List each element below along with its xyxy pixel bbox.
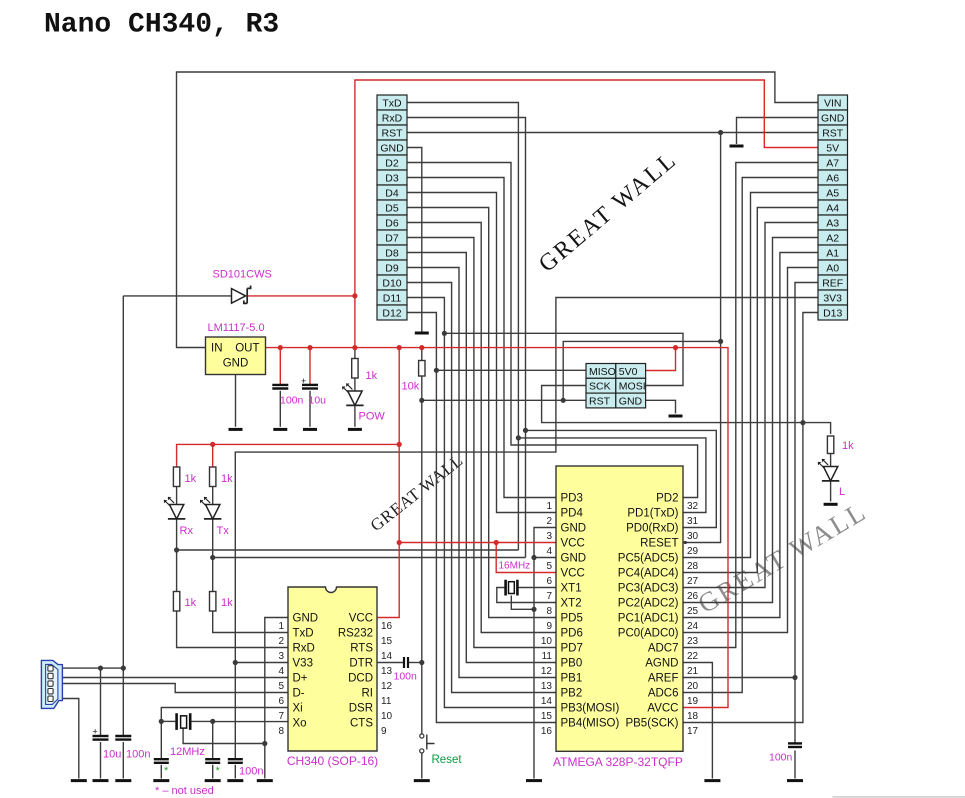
wire CH340 GND pin1 to ground (265, 618, 288, 779)
ground 10u GND (303, 428, 317, 431)
node Tx junction (210, 555, 215, 560)
svg-text:PC1(ADC1): PC1(ADC1) (618, 613, 679, 625)
svg-text:D+: D+ (293, 673, 308, 685)
svg-text:ADC7: ADC7 (648, 643, 679, 655)
svg-text:A1: A1 (826, 247, 839, 259)
wire A1 to ATMEGA PC1 (683, 253, 818, 618)
node DTR cap junction (419, 660, 424, 665)
wire D4 header to ATMEGA PD4 (407, 193, 556, 513)
node RxD branch junction (523, 428, 528, 433)
svg-text:A4: A4 (826, 202, 839, 214)
svg-text:7: 7 (546, 591, 552, 602)
node OUT POW junction (352, 345, 357, 350)
svg-text:AREF: AREF (648, 673, 679, 685)
svg-text:D7: D7 (385, 232, 399, 244)
svg-text:Nano CH340, R3: Nano CH340, R3 (44, 10, 279, 41)
wire A5 to ATMEGA PC5 (683, 193, 818, 558)
svg-text:1k: 1k (185, 597, 197, 609)
svg-text:100n: 100n (126, 749, 150, 761)
resistor R 1k POW (352, 359, 358, 379)
node OUT 100n junction (278, 345, 283, 350)
svg-text:Xi: Xi (293, 703, 303, 715)
svg-text:PB0: PB0 (561, 658, 583, 670)
svg-text:PD7: PD7 (561, 643, 583, 655)
pin 4 of USB (48, 689, 53, 694)
LED L (818, 459, 839, 481)
resistor R 1k L (827, 436, 833, 454)
ground 100n bottom GND (115, 779, 131, 782)
svg-text:15: 15 (541, 711, 553, 722)
wire POW resistor to LED (354, 378, 356, 391)
wire ISP GND to ground (646, 400, 676, 413)
svg-text:GND: GND (561, 553, 587, 565)
header pin A7 right (818, 155, 848, 170)
svg-text:100n: 100n (239, 766, 263, 778)
header pin D11 (377, 290, 407, 305)
capacitor 100n DTR (404, 657, 408, 668)
svg-text:IN: IN (211, 343, 223, 355)
node Rx junction (174, 547, 179, 552)
wire DTR cap to reset line (409, 662, 422, 664)
svg-text:23: 23 (687, 636, 699, 647)
wire A2 to ATMEGA PC2 (683, 238, 818, 603)
svg-text:18: 18 (687, 711, 699, 722)
svg-text:1: 1 (278, 621, 284, 632)
wire ISP MOSI route (444, 333, 683, 385)
pin 2 of USB (48, 673, 53, 678)
header pin A1 right (818, 245, 848, 260)
svg-text:PD6: PD6 (561, 628, 583, 640)
ground 10u bottom GND (93, 779, 109, 782)
svg-text:*: * (164, 765, 169, 777)
svg-text:10u: 10u (103, 749, 121, 761)
svg-text:+: + (93, 727, 98, 737)
svg-text:V33: V33 (293, 658, 313, 670)
resistor R 1k Tx lower (210, 592, 216, 612)
svg-text:OUT: OUT (235, 343, 259, 355)
crystal X1 12MHz (177, 713, 191, 730)
svg-text:GND: GND (293, 613, 319, 625)
svg-text:DSR: DSR (349, 703, 373, 715)
ISP header cell MOSI (616, 378, 646, 393)
wire POW LED cathode (354, 407, 356, 427)
svg-text:GND: GND (223, 358, 249, 370)
svg-text:PC5(ADC5): PC5(ADC5) (618, 553, 679, 565)
svg-text:10: 10 (541, 636, 553, 647)
wire 12MHz left cap to ground (160, 721, 162, 758)
header pin A6 right (818, 170, 848, 185)
wire 100n cap stem (279, 391, 281, 427)
svg-text:GND: GND (619, 396, 643, 408)
capacitor 100n at LM1117 (272, 385, 288, 389)
wire D10 header to ATMEGA PB2 (407, 283, 556, 693)
svg-text:D13: D13 (823, 307, 842, 319)
pin 1 of USB (48, 666, 53, 671)
svg-text:PD4: PD4 (561, 508, 584, 520)
wire 12MHz left cap stem (160, 765, 162, 779)
svg-text:D2: D2 (385, 157, 399, 169)
svg-text:A7: A7 (826, 157, 839, 169)
svg-text:GND: GND (561, 523, 587, 535)
wire header RST row to right header RST (407, 132, 818, 134)
wire 16MHz crystal case tap (511, 596, 534, 610)
wire Tx lower resistor to CH340 TxD (213, 611, 288, 633)
node OUT VCC-branch junction (397, 345, 402, 350)
wire ATMEGA GND pin5 stub (534, 557, 556, 559)
node MISO junction (434, 368, 439, 373)
svg-text:DTR: DTR (349, 658, 373, 670)
wire USB GND wire (53, 699, 79, 779)
ground 12MHz cap2 GND (205, 779, 221, 782)
svg-text:RTS: RTS (350, 643, 373, 655)
ground reset GND (414, 779, 430, 782)
svg-text:1: 1 (546, 501, 552, 512)
wire Tx LED cathode down (212, 487, 214, 592)
svg-text:13: 13 (381, 666, 393, 677)
ground AGND GND (704, 779, 720, 782)
svg-text:ADC6: ADC6 (648, 688, 679, 700)
node VBUS 10u junction (98, 666, 103, 671)
wire 100n bottom stem (122, 742, 124, 779)
wire V33 100n cap stem (234, 765, 236, 779)
node AREF junction (792, 675, 797, 680)
svg-text:PB4(MISO): PB4(MISO) (561, 718, 620, 730)
header pin RxD (377, 110, 407, 125)
svg-text:RST: RST (589, 396, 611, 408)
svg-text:21: 21 (687, 666, 699, 677)
wire 16MHz crystal XT1 stub (518, 587, 556, 589)
wire CH340 Xi to crystal (161, 708, 288, 722)
svg-text:VCC: VCC (561, 538, 585, 550)
wire TxD branch to ATMEGA PD1 (518, 438, 706, 513)
svg-text:16MHz: 16MHz (499, 561, 531, 572)
wire CH340 V33 row (235, 662, 288, 664)
wire L LED branch (803, 423, 831, 434)
wire reset button to ground (421, 753, 423, 779)
svg-text:9: 9 (381, 726, 387, 737)
LED Tx (200, 497, 221, 519)
node ATMEGA GND5 junction (531, 555, 536, 560)
wire Tx junction to RxD net (213, 557, 526, 559)
header pin D5 (377, 200, 407, 215)
wire USB 10u branch (100, 668, 102, 736)
svg-text:RESET: RESET (640, 538, 678, 550)
svg-text:1k: 1k (221, 473, 233, 485)
ISP header cell RST (586, 393, 616, 408)
wire L LED to ground (830, 482, 832, 502)
node 12MHz left junction (159, 719, 164, 724)
wire ISP RST up-over (563, 341, 720, 400)
wire A3 to ATMEGA PC3 (683, 223, 818, 588)
wire RST vertical to ATMEGA RESET (683, 133, 721, 543)
header pin D3 (377, 170, 407, 185)
svg-text:3V3: 3V3 (823, 292, 842, 304)
svg-text:PC2(ADC2): PC2(ADC2) (618, 598, 679, 610)
svg-text:D-: D- (293, 688, 305, 700)
node diode 5V junction (352, 293, 357, 298)
pushbutton SW1 Reset (420, 734, 435, 753)
svg-text:LM1117-5.0: LM1117-5.0 (208, 322, 265, 334)
svg-text:PD5: PD5 (561, 613, 583, 625)
wire D7 header to ATMEGA PD7 (407, 238, 556, 648)
svg-text:4: 4 (546, 546, 552, 557)
svg-text:XT1: XT1 (561, 583, 582, 595)
svg-text:D3: D3 (385, 172, 399, 184)
node ISP RST junction (561, 398, 566, 403)
diode D1 SD101CWS (232, 286, 251, 304)
capacitor 10u at LM1117 (302, 385, 318, 389)
svg-text:XT2: XT2 (561, 598, 582, 610)
svg-text:GND: GND (821, 112, 845, 124)
svg-text:Reset: Reset (432, 754, 463, 766)
svg-text:8: 8 (546, 606, 552, 617)
svg-text:CTS: CTS (350, 718, 373, 730)
capacitor 10u bottom (93, 736, 109, 740)
wire red 10u cap drop (309, 348, 311, 385)
svg-text:12: 12 (541, 666, 553, 677)
svg-text:5V0: 5V0 (619, 366, 638, 378)
ground right header GND (730, 145, 744, 148)
wire Rx junction to TxD net (177, 549, 519, 551)
wire red VCC pin6 link (496, 543, 556, 573)
svg-text:SD101CWS: SD101CWS (213, 269, 272, 281)
ground AREF cap GND (787, 779, 803, 782)
wire 12MHz right plate wire (191, 720, 212, 722)
svg-text:10k: 10k (402, 381, 420, 393)
wire top header GND to ground (407, 148, 422, 332)
wire 10k top lead (421, 348, 423, 361)
svg-text:12: 12 (381, 681, 393, 692)
svg-text:14: 14 (381, 651, 393, 662)
svg-text:RI: RI (362, 688, 374, 700)
wire RxD branch to ATMEGA PD0 (526, 430, 717, 527)
svg-text:POW: POW (359, 411, 386, 423)
resistor R 10k reset pullup (419, 361, 425, 377)
svg-text:100n: 100n (394, 671, 418, 683)
wire red ATMEGA VCC branch (399, 542, 556, 544)
node V33 junction (233, 660, 238, 665)
svg-text:1k: 1k (842, 440, 854, 452)
wire A4 to ATMEGA PC4 (683, 208, 818, 573)
wire D8 header to ATMEGA PB0 (407, 253, 556, 663)
wire right header GND to ground (737, 118, 819, 145)
header pin A3 right (818, 215, 848, 230)
wire 10u bottom stem (100, 742, 102, 779)
svg-text:DCD: DCD (348, 673, 373, 685)
crystal X2 16MHz (506, 580, 518, 596)
node crystal tap junction (531, 607, 536, 612)
svg-text:5: 5 (546, 561, 552, 572)
resistor R 1k Tx upper (210, 467, 216, 487)
wire 10u cap stem (309, 391, 311, 427)
header pin D7 (377, 230, 407, 245)
IC U1 CH340 (SOP-16) (288, 587, 377, 751)
wire 12MHz right cap to ground (212, 721, 214, 758)
header pin TxD (377, 95, 407, 110)
svg-text:L: L (839, 486, 845, 498)
svg-text:MOSI: MOSI (619, 381, 646, 393)
header pin VIN right (818, 95, 848, 110)
svg-text:2: 2 (546, 516, 552, 527)
svg-text:14: 14 (541, 696, 553, 707)
svg-text:10u: 10u (309, 395, 327, 407)
svg-text:PB3(MOSI): PB3(MOSI) (561, 703, 620, 715)
header pin D9 (377, 260, 407, 275)
svg-text:13: 13 (541, 681, 553, 692)
svg-text:16: 16 (541, 726, 553, 737)
svg-text:12MHz: 12MHz (170, 746, 205, 758)
wire red 5V top rail to 5V pin (355, 80, 818, 348)
svg-text:1k: 1k (366, 370, 378, 382)
header pin GND right (818, 110, 848, 125)
svg-text:D11: D11 (383, 292, 402, 304)
node RST junction mid (718, 339, 723, 344)
svg-text:PD0(RxD): PD0(RxD) (626, 523, 679, 535)
svg-text:11: 11 (381, 696, 392, 707)
wire 3V3 right header to CH340 V33 (235, 298, 818, 759)
svg-text:A0: A0 (826, 262, 839, 274)
ground header GND (415, 332, 429, 335)
node MOSI junction (442, 331, 447, 336)
wire REF to ATMEGA AREF and cap (795, 283, 818, 744)
wire D3 header to ATMEGA PD3 (407, 178, 556, 498)
wire ISP SCK route to D13 net (542, 386, 803, 423)
resistor R 1k Rx lower (173, 592, 179, 612)
wire REF cap to ground (794, 750, 796, 778)
svg-text:D10: D10 (382, 277, 401, 289)
svg-text:PB2: PB2 (561, 688, 583, 700)
wire AREF row stub (683, 677, 795, 679)
header pin REF right (818, 275, 848, 290)
frame corner bottom right (833, 796, 965, 798)
regulator U2 LM1117-5.0 (206, 337, 266, 375)
wire red diode cathode to 5V (248, 295, 355, 297)
header pin D10 (377, 275, 407, 290)
wire A7 to ATMEGA ADC7 (683, 163, 818, 648)
capacitor 100n V33 (228, 759, 243, 763)
IC U3 ATMEGA 328P-32TQFP (556, 466, 683, 751)
svg-text:AVCC: AVCC (647, 703, 678, 715)
node RESET pin dot (684, 541, 687, 544)
svg-text:5V: 5V (826, 142, 839, 154)
header pin RST right (818, 125, 848, 140)
wire 12MHz case tap (183, 728, 265, 743)
wire reset line (421, 400, 423, 734)
svg-text:D5: D5 (385, 202, 399, 214)
svg-text:16: 16 (381, 621, 393, 632)
wire AGND to ground (683, 663, 712, 779)
wire CH340 Xo to crystal (213, 721, 288, 723)
svg-text:A5: A5 (826, 187, 839, 199)
header pin D12 (377, 305, 407, 320)
capacitor 100n bottom (115, 736, 131, 740)
svg-text:22: 22 (687, 651, 699, 662)
wire D12 header to ATMEGA PB4(MISO) (407, 313, 556, 723)
svg-text:A6: A6 (826, 172, 839, 184)
header pin A4 right (818, 200, 848, 215)
node D13 SCK junction (800, 420, 805, 425)
svg-text:AGND: AGND (645, 658, 678, 670)
svg-text:24: 24 (687, 621, 699, 632)
svg-text:PB1: PB1 (561, 673, 583, 685)
header pin D6 (377, 215, 407, 230)
svg-text:VCC: VCC (561, 568, 585, 580)
svg-text:RS232: RS232 (338, 628, 373, 640)
wire D5 header to ATMEGA PD5 (407, 208, 556, 618)
svg-text:D4: D4 (385, 187, 399, 199)
svg-text:29: 29 (687, 546, 699, 557)
ISP header cell GND (616, 393, 646, 408)
svg-text:ATMEGA 328P-32TQFP: ATMEGA 328P-32TQFP (553, 755, 683, 769)
svg-text:PC0(ADC0): PC0(ADC0) (618, 628, 679, 640)
wire D9 header to ATMEGA PB1 (407, 268, 556, 678)
header pin D4 (377, 185, 407, 200)
header pin RST (377, 125, 407, 140)
svg-text:31: 31 (687, 516, 699, 527)
wire Rx LED anode lead (176, 466, 178, 468)
svg-text:11: 11 (542, 651, 553, 662)
svg-text:PD2: PD2 (656, 493, 678, 505)
header pin GND (377, 140, 407, 155)
svg-text:D12: D12 (382, 307, 401, 319)
svg-text:Xo: Xo (293, 718, 307, 730)
LED POW (342, 384, 363, 406)
wire ISP RST row (422, 399, 586, 401)
ground 100n GND (273, 428, 287, 431)
svg-text:15: 15 (381, 636, 393, 647)
svg-text:10: 10 (381, 711, 393, 722)
svg-text:1k: 1k (221, 597, 233, 609)
wire red CH340 VCC branch (377, 348, 399, 618)
wire red 100n cap drop (279, 348, 281, 385)
wire 16MHz crystal left loop to XT2 (497, 588, 556, 603)
svg-text:PC3(ADC3): PC3(ADC3) (618, 583, 679, 595)
header pin 5V right (818, 140, 848, 155)
svg-text:PD3: PD3 (561, 493, 583, 505)
wire red 5V0 ISP link (646, 348, 676, 371)
node CH340 GND case junction (262, 741, 267, 746)
capacitor 12MHz load cap 1 (154, 759, 169, 763)
header pin D2 (377, 155, 407, 170)
svg-text:A3: A3 (826, 217, 839, 229)
node OUT 5V0 junction (673, 345, 678, 350)
svg-text:D6: D6 (385, 217, 399, 229)
wire Rx lower resistor to CH340 RxD (177, 611, 288, 648)
svg-text:*: * (216, 765, 221, 777)
node reset line junction (419, 398, 424, 403)
node OUT 10k junction (419, 345, 424, 350)
svg-text:SCK: SCK (589, 381, 611, 393)
wire POW resistor top lead (354, 348, 356, 359)
svg-text:27: 27 (687, 576, 699, 587)
wire USB D- wire (53, 684, 288, 693)
ground 12MHz cap1 GND (153, 779, 169, 782)
ground LM1117 GND (229, 428, 243, 431)
svg-text:19: 19 (687, 696, 699, 707)
header pin A5 right (818, 185, 848, 200)
node LED rail junction (397, 442, 402, 447)
svg-text:D9: D9 (385, 262, 399, 274)
svg-text:PB5(SCK): PB5(SCK) (625, 718, 678, 730)
wire TxD header down (407, 103, 518, 551)
svg-text:32: 32 (687, 501, 699, 512)
wire red LED feed rail (177, 444, 400, 467)
ground USB GND (71, 779, 87, 782)
svg-text:RST: RST (382, 127, 404, 139)
header pin A0 right (818, 260, 848, 275)
svg-text:3: 3 (278, 651, 284, 662)
svg-text:5: 5 (278, 681, 284, 692)
